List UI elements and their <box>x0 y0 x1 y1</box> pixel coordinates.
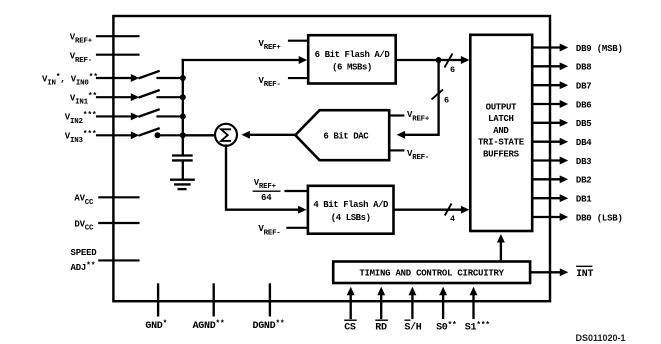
capacitor wire top <box>182 135 184 154</box>
svg-text:DB5: DB5 <box>576 119 592 129</box>
summing node sigma <box>215 124 237 146</box>
wire timing to latch <box>500 241 502 262</box>
block 6-bit DAC U2 <box>295 110 389 160</box>
switch S3 blade <box>140 129 159 136</box>
svg-text:VREF-: VREF- <box>258 224 280 237</box>
output DB8 <box>532 62 591 72</box>
svg-text:S0**: S0** <box>436 321 456 334</box>
svg-text:ADJ**: ADJ** <box>71 261 96 273</box>
input RD <box>375 287 388 334</box>
block output latch U4 <box>470 35 532 231</box>
pin VIN1 label <box>70 92 97 107</box>
node VIN3 bus junction <box>180 132 186 138</box>
svg-text:DS011020-1: DS011020-1 <box>576 333 626 343</box>
wire VIN0 input <box>97 77 132 79</box>
arrow into sigma <box>241 131 250 139</box>
bus slash 6 msb <box>445 54 456 76</box>
svg-text:AND: AND <box>493 126 509 136</box>
svg-text:DB3: DB3 <box>576 157 592 167</box>
svg-text:VREF+: VREF+ <box>407 110 430 123</box>
svg-text:TIMING AND CONTROL CIRCUITRY: TIMING AND CONTROL CIRCUITRY <box>359 269 504 279</box>
output DB1 <box>532 194 592 204</box>
svg-text:6 Bit DAC: 6 Bit DAC <box>323 132 369 142</box>
output DB6 <box>532 100 591 110</box>
svg-text:GND*: GND* <box>145 320 167 333</box>
output DB7 <box>532 81 591 91</box>
svg-text:DB9 (MSB): DB9 (MSB) <box>576 44 623 54</box>
arrow flash6 to latch <box>461 56 470 64</box>
pin VREF- <box>70 52 139 65</box>
svg-text:CS: CS <box>344 323 356 334</box>
block timing control U5 <box>333 262 530 284</box>
arrow into DAC <box>397 131 406 139</box>
wire VIN1 contact <box>158 96 183 98</box>
arrow into flash6 <box>299 56 308 64</box>
svg-text:LATCH: LATCH <box>488 114 514 124</box>
svg-text:DVCC: DVCC <box>74 219 94 232</box>
capacitor wire bottom <box>182 162 184 179</box>
svg-text:DB6: DB6 <box>576 100 592 110</box>
svg-text:TRI-STATE: TRI-STATE <box>478 138 525 148</box>
input S0 <box>436 287 456 334</box>
pin VIN3 label <box>65 130 97 145</box>
svg-text:(4 LSBs): (4 LSBs) <box>331 213 371 223</box>
node flash6 output junction <box>436 57 442 63</box>
block 6-bit flash ADC U1 <box>308 35 396 83</box>
svg-text:4 Bit Flash A/D: 4 Bit Flash A/D <box>313 200 389 210</box>
svg-text:DB8: DB8 <box>576 63 592 73</box>
wire flash4 output <box>395 209 462 211</box>
bus slash 4 lsb <box>445 204 455 225</box>
output DB3 <box>532 157 591 167</box>
input CS <box>344 287 357 334</box>
input S/H <box>404 287 421 334</box>
svg-text:VREF+: VREF+ <box>254 178 277 191</box>
svg-text:VIN*, VIN0**: VIN*, VIN0** <box>42 73 98 88</box>
switch S0 blade <box>140 71 159 78</box>
svg-text:S1***: S1*** <box>465 321 490 334</box>
svg-text:VREF+: VREF+ <box>70 33 93 46</box>
output DB2 <box>532 175 591 185</box>
svg-text:(6 MSBs): (6 MSBs) <box>332 63 372 73</box>
arrow VIN2 <box>131 112 140 120</box>
node VIN0 bus junction <box>180 75 186 81</box>
pin DGND <box>253 285 285 333</box>
pin VIN/VIN0 label <box>42 73 98 88</box>
bus slash 6 dac <box>432 90 450 106</box>
wire sigma to flash4 <box>226 146 300 210</box>
switch S2 blade <box>140 110 159 117</box>
wire flash6 output <box>397 59 462 61</box>
svg-text:VIN1**: VIN1** <box>70 92 97 107</box>
pin flash4 VREF- <box>258 224 306 237</box>
wire 6-bit bus to DAC <box>405 60 439 135</box>
output DB9 <box>532 44 623 54</box>
arrow VIN1 <box>131 93 140 101</box>
pin flash6 VREF+ <box>259 39 308 52</box>
svg-text:INT: INT <box>576 269 593 280</box>
pin flash4 VREF+/64 <box>253 178 307 203</box>
pin SPEED ADJ <box>71 248 139 273</box>
node VIN2 bus junction <box>180 113 186 119</box>
wire VIN3 contact <box>158 134 183 136</box>
wire VIN1 input <box>97 96 132 98</box>
svg-text:OUTPUT: OUTPUT <box>486 102 518 112</box>
capacitor C plates <box>173 156 191 161</box>
svg-text:VREF-: VREF- <box>70 52 92 65</box>
svg-text:6: 6 <box>444 96 449 106</box>
pin DAC VREF+ <box>391 110 430 123</box>
arrow flash4 to latch <box>461 206 470 214</box>
svg-text:BUFFERS: BUFFERS <box>483 150 520 160</box>
svg-text:VIN3***: VIN3*** <box>65 130 97 145</box>
output DB4 <box>532 138 592 148</box>
pin DVCC <box>74 219 138 232</box>
svg-text:DB7: DB7 <box>576 82 592 92</box>
pin GND <box>145 285 167 333</box>
svg-text:SPEED: SPEED <box>71 248 98 258</box>
svg-text:DB2: DB2 <box>576 176 592 186</box>
wire bus to sigma <box>183 134 216 136</box>
svg-text:RD: RD <box>375 323 387 334</box>
wire analog bus vertical <box>182 60 184 135</box>
wire VIN2 input <box>97 115 132 117</box>
svg-text:VREF-: VREF- <box>407 149 429 162</box>
svg-text:AGND**: AGND** <box>193 320 225 333</box>
svg-text:DB4: DB4 <box>576 138 592 148</box>
svg-text:4: 4 <box>450 214 455 224</box>
svg-text:VREF+: VREF+ <box>259 39 282 52</box>
wire VIN0 contact <box>158 77 183 79</box>
pin AVCC <box>74 194 138 207</box>
wire analog bus to flash6 <box>183 59 301 61</box>
arrow VIN0 <box>131 74 140 82</box>
svg-text:64: 64 <box>261 193 272 203</box>
svg-text:DB1: DB1 <box>576 195 592 205</box>
pin AGND <box>193 285 225 333</box>
block 4-bit flash ADC U3 <box>308 186 394 234</box>
svg-text:6 Bit Flash A/D: 6 Bit Flash A/D <box>315 50 391 60</box>
svg-text:S/H: S/H <box>404 322 421 334</box>
output INT <box>530 266 593 280</box>
pin VIN2 label <box>65 111 97 126</box>
svg-text:DGND**: DGND** <box>253 320 285 333</box>
arrow VIN3 <box>131 131 140 139</box>
switch S1 blade <box>140 90 159 97</box>
svg-text:AVCC: AVCC <box>74 194 94 207</box>
pin VREF+ <box>70 33 139 46</box>
svg-text:6: 6 <box>450 65 455 75</box>
node S3 contact dot <box>155 132 161 138</box>
output DB0 <box>532 213 623 223</box>
pin flash6 VREF- <box>259 76 308 89</box>
svg-text:VIN2***: VIN2*** <box>65 111 97 126</box>
output DB5 <box>532 119 591 129</box>
arrow timing to latch <box>497 234 505 243</box>
node VIN1 bus junction <box>180 94 186 100</box>
wire VIN2 contact <box>158 115 183 117</box>
input S1 <box>465 287 490 334</box>
outer boundary <box>113 16 550 301</box>
svg-text:DB0 (LSB): DB0 (LSB) <box>576 213 623 223</box>
pin DAC VREF- <box>391 149 430 162</box>
svg-text:VREF-: VREF- <box>259 76 281 89</box>
arrow into flash4 <box>298 206 307 214</box>
wire VIN3 input <box>97 134 132 136</box>
wire DAC to sigma <box>249 134 296 136</box>
ground <box>171 180 193 189</box>
